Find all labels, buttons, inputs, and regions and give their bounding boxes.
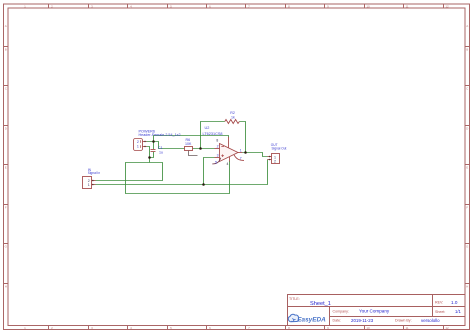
wire capacitor bottom lead (150, 152, 154, 158)
pin 8 V+ lead (228, 137, 230, 148)
wire noninverting input down to rail (204, 158, 215, 185)
capacitor C1 (151, 150, 156, 152)
wire header pin1 ground (147, 147, 150, 163)
pin 5 stub (212, 158, 220, 164)
resistor R6 pin stub (189, 151, 198, 156)
svg-text:versolollo: versolollo (421, 318, 440, 323)
wire capacitor top lead (153, 142, 155, 150)
frame ticks left (4, 47, 9, 284)
wire feedback left: R2 to inverting node (201, 122, 225, 149)
frame ticks top (49, 4, 444, 8)
svg-text:A: A (466, 24, 468, 28)
svg-text:B: B (466, 48, 468, 52)
svg-text:1/1: 1/1 (455, 309, 461, 314)
svg-text:2: 2 (137, 140, 139, 144)
junction node B (gnd / C1 bottom) (148, 156, 151, 159)
svg-text:Drawn By:: Drawn By: (395, 319, 412, 323)
svg-text:TITLE:: TITLE: (289, 297, 300, 301)
svg-text:R2: R2 (230, 111, 235, 115)
svg-text:12: 12 (445, 326, 449, 330)
EasyEDA logo cloud (288, 314, 299, 321)
svg-text:10: 10 (366, 5, 370, 9)
port IN (83, 177, 96, 189)
wire OUT port pin2 down to input rail (96, 160, 268, 185)
resistor R2 (225, 120, 240, 124)
wire V+ up to op-amp top pin (154, 136, 229, 142)
svg-text:Sheet:: Sheet: (435, 310, 445, 314)
svg-text:2019-11-23: 2019-11-23 (351, 318, 374, 323)
svg-text:E: E (466, 166, 468, 170)
svg-text:4: 4 (227, 162, 229, 166)
svg-text:2: 2 (217, 145, 219, 149)
op-amp U2 (212, 137, 244, 166)
svg-text:B: B (5, 48, 7, 52)
svg-text:U2: U2 (205, 126, 210, 130)
svg-text:1k: 1k (231, 116, 235, 120)
pin 3 noninverting lead (215, 157, 220, 159)
svg-text:2: 2 (274, 159, 276, 163)
wire Signal In pin2 to ground run (96, 161, 230, 194)
svg-text:Header-Female-2.54_1x2: Header-Female-2.54_1x2 (139, 133, 181, 137)
svg-text:F: F (5, 206, 7, 210)
svg-text:12: 12 (445, 5, 449, 9)
svg-text:Your Company: Your Company (359, 309, 390, 314)
svg-text:Company:: Company: (333, 309, 349, 313)
svg-text:Sheet_1: Sheet_1 (310, 301, 331, 307)
svg-text:11: 11 (405, 5, 408, 9)
frame ticks right (465, 47, 470, 284)
svg-text:EasyEDA: EasyEDA (297, 317, 326, 324)
junction node E (noninverting / rail) (202, 183, 205, 186)
svg-text:1: 1 (137, 145, 139, 149)
junction node C (inverting input) (199, 147, 202, 150)
resistor R6 (185, 147, 193, 151)
minus mark (221, 146, 224, 148)
wire output to OUT port pin1 (243, 153, 268, 157)
svg-text:F: F (466, 206, 468, 210)
svg-text:C1: C1 (158, 146, 163, 150)
pin 2 inverting lead (215, 148, 220, 150)
svg-text:11: 11 (405, 326, 408, 330)
junction node D (output / feedback) (244, 151, 247, 154)
svg-text:10: 10 (366, 326, 370, 330)
svg-text:H: H (466, 285, 468, 289)
port OUT (268, 154, 280, 164)
svg-text:7: 7 (240, 157, 242, 161)
svg-text:REV:: REV: (435, 301, 443, 305)
svg-text:Signal Out: Signal Out (272, 147, 287, 151)
plus mark (221, 155, 224, 157)
wire R6 right to op-amp inverting input (193, 148, 215, 150)
svg-text:1: 1 (240, 149, 242, 153)
svg-text:5: 5 (215, 160, 217, 164)
pin 7 stub (234, 155, 244, 161)
svg-text:1: 1 (88, 183, 90, 187)
svg-text:E: E (5, 166, 7, 170)
frame row letters (5, 24, 469, 289)
wire feedback right: R2 to output node (239, 122, 245, 153)
svg-text:3: 3 (217, 154, 219, 158)
frame ticks bottom (49, 326, 444, 330)
svg-text:Date:: Date: (333, 319, 342, 323)
header POWER6 (134, 139, 147, 151)
svg-text:1.0: 1.0 (451, 300, 458, 305)
svg-text:8: 8 (216, 138, 218, 142)
pin 1 output lead (238, 152, 243, 154)
junction node A (V+ / C1 top) (152, 140, 155, 143)
wire V+ from header pin2 to R6 branch (147, 142, 185, 149)
svg-text:Signal In: Signal In (88, 171, 101, 175)
svg-text:1u: 1u (159, 151, 163, 155)
svg-text:10K: 10K (185, 142, 192, 146)
svg-text:H: H (5, 285, 7, 289)
svg-text:A: A (5, 24, 7, 28)
svg-text:LT6231CS8: LT6231CS8 (203, 132, 223, 136)
pin 4 V- lead (229, 157, 231, 162)
